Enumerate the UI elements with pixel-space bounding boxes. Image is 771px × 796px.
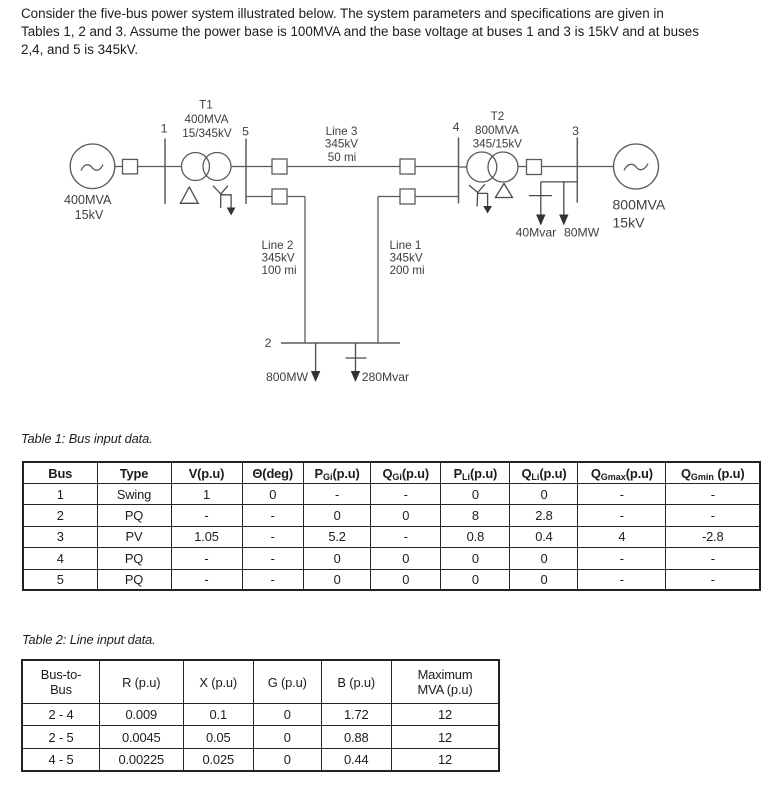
load arrowhead 40Mvar bbox=[536, 215, 545, 226]
wire breaker to generator G2 through bus 3 bbox=[542, 166, 614, 168]
delta winding symbol T1 bbox=[180, 187, 198, 203]
svg-text:T1: T1 bbox=[199, 99, 213, 112]
delta winding symbol T2 bbox=[495, 184, 512, 198]
breaker square line3 right bbox=[400, 159, 415, 174]
label Line 2 bbox=[262, 239, 297, 277]
svg-text:2: 2 bbox=[265, 336, 272, 350]
breaker square B1 bbox=[123, 159, 138, 174]
wire T1 to bus 5 bbox=[231, 166, 246, 168]
bus 2 bbox=[281, 342, 400, 344]
svg-text:Line 1: Line 1 bbox=[390, 239, 422, 252]
breaker square line1 bbox=[400, 189, 415, 204]
wire bus 4 to T2 bbox=[459, 166, 468, 168]
svg-text:345kV: 345kV bbox=[262, 252, 295, 265]
wire breaker to bus 4 bbox=[415, 166, 459, 168]
wire bus 1 to T1 bbox=[165, 166, 182, 168]
svg-text:4: 4 bbox=[453, 120, 460, 134]
svg-text:800MW: 800MW bbox=[266, 370, 308, 384]
svg-text:3: 3 bbox=[572, 124, 579, 138]
wire bus 5 to line2 breaker bbox=[246, 196, 272, 198]
shunt capacitor 40Mvar wire bbox=[529, 182, 552, 215]
wire Line 2 vertical bbox=[304, 197, 306, 344]
load arrowhead 800MW bbox=[311, 371, 320, 382]
shunt capacitor 280Mvar wire bbox=[346, 343, 367, 372]
breaker square line3 left bbox=[272, 159, 287, 174]
svg-text:345kV: 345kV bbox=[325, 138, 358, 151]
breaker square line2 bbox=[272, 189, 287, 204]
bus 3 bbox=[576, 137, 578, 202]
wire breaker to bus 1 bbox=[138, 166, 166, 168]
svg-text:280Mvar: 280Mvar bbox=[362, 370, 409, 384]
svg-text:Line 2: Line 2 bbox=[262, 239, 294, 252]
svg-text:100 mi: 100 mi bbox=[262, 264, 297, 277]
svg-text:400MVA: 400MVA bbox=[185, 113, 229, 126]
svg-text:40Mvar: 40Mvar bbox=[516, 226, 557, 240]
wire Line 1 vertical bbox=[377, 197, 379, 344]
generator G2 bbox=[614, 144, 659, 189]
grounded wye winding symbol T1 bbox=[213, 186, 231, 209]
bus 1 bbox=[164, 139, 166, 205]
breaker square bus3 bbox=[527, 160, 542, 175]
svg-text:Line 3: Line 3 bbox=[326, 125, 358, 138]
label T1 bbox=[182, 99, 232, 141]
svg-text:15kV: 15kV bbox=[613, 214, 646, 230]
wire bus 3 load connector bbox=[541, 181, 578, 183]
ground arrowhead T1 bbox=[227, 208, 236, 216]
wire bus 5 to breaker bbox=[246, 166, 272, 168]
svg-text:800MVA: 800MVA bbox=[475, 124, 519, 137]
label Line 3 bbox=[325, 125, 358, 164]
svg-text:15kV: 15kV bbox=[75, 208, 104, 222]
label generator G1 rating bbox=[64, 193, 112, 222]
wire Line 1 corner to breaker bbox=[378, 196, 400, 198]
svg-text:5: 5 bbox=[242, 125, 249, 139]
svg-text:1: 1 bbox=[161, 122, 168, 136]
load arrow 80MW at bus 3 bbox=[563, 182, 565, 215]
svg-text:80MW: 80MW bbox=[564, 226, 600, 240]
svg-text:15/345kV: 15/345kV bbox=[182, 127, 232, 140]
label T2 bbox=[473, 110, 523, 150]
svg-text:800MVA: 800MVA bbox=[613, 197, 666, 213]
svg-text:200 mi: 200 mi bbox=[390, 264, 425, 277]
label Line 1 bbox=[390, 239, 425, 277]
wire T2 to breaker bbox=[518, 166, 527, 168]
bus 4 bbox=[458, 138, 460, 204]
bus 5 bbox=[245, 139, 247, 205]
wire breaker to bus 4 lower bbox=[415, 196, 459, 198]
grounded wye winding symbol T2 bbox=[469, 184, 488, 207]
svg-text:400MVA: 400MVA bbox=[64, 193, 112, 207]
wire G1 to breaker bbox=[115, 166, 123, 168]
wire Line 3 bbox=[287, 166, 400, 168]
ground arrowhead T2 bbox=[483, 206, 492, 214]
transformer T2 bbox=[467, 152, 518, 182]
svg-text:345/15kV: 345/15kV bbox=[473, 137, 523, 150]
svg-text:345kV: 345kV bbox=[390, 252, 423, 265]
svg-text:50 mi: 50 mi bbox=[328, 151, 357, 164]
transformer T1 bbox=[182, 153, 232, 181]
load arrowhead 80MW bbox=[559, 215, 568, 226]
load arrow 800MW at bus 2 bbox=[315, 343, 317, 372]
svg-text:T2: T2 bbox=[491, 110, 505, 123]
generator G1 bbox=[70, 144, 115, 189]
label generator G2 rating bbox=[613, 197, 666, 231]
wire breaker to Line 2 corner bbox=[287, 196, 305, 198]
load arrowhead 280Mvar bbox=[351, 371, 360, 382]
